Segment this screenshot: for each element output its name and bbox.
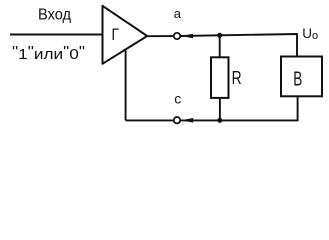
svg-text:Uо: Uо xyxy=(302,26,318,42)
node c terminal circle xyxy=(174,117,180,123)
svg-text:Вход: Вход xyxy=(38,7,72,24)
junction dot top xyxy=(217,33,222,38)
wire feedback from triangle bottom xyxy=(125,51,127,121)
svg-text:R: R xyxy=(232,67,242,88)
block B xyxy=(281,57,322,97)
svg-text:c: c xyxy=(174,91,181,107)
op-amp U1 triangle xyxy=(103,6,148,64)
wire input xyxy=(10,34,103,36)
svg-text:"1"или"0": "1"или"0" xyxy=(12,43,85,63)
junction dot bottom xyxy=(217,118,222,123)
wire resistor top lead xyxy=(219,35,221,57)
svg-text:Г: Г xyxy=(112,25,120,44)
node a terminal circle xyxy=(174,33,180,39)
arrow into node a xyxy=(181,34,193,39)
wire output to node a xyxy=(148,35,174,37)
resistor R xyxy=(211,57,229,98)
wire bottom rail xyxy=(126,96,298,120)
wire resistor bottom lead xyxy=(219,99,221,121)
wire top rail xyxy=(181,34,298,57)
svg-text:В: В xyxy=(293,69,302,91)
arrow into node c xyxy=(181,118,193,123)
svg-text:a: a xyxy=(174,6,182,21)
